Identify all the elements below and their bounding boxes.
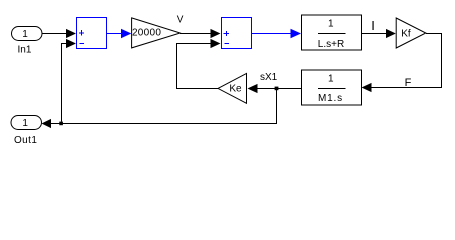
- wire TF1 to Kf: [362, 33, 388, 35]
- outport Out1: [11, 116, 42, 146]
- arrowhead into Sum1 +: [66, 29, 76, 38]
- svg-text:F: F: [405, 77, 412, 89]
- gain Ke: [218, 73, 247, 103]
- arrowhead into Sum1 -: [66, 39, 76, 48]
- sum S2: [222, 18, 252, 49]
- wire Gain to Sum2: [180, 33, 211, 35]
- gain 20000: [132, 18, 180, 48]
- inport In1: [12, 27, 43, 56]
- arrowhead into Sum2 -: [211, 39, 221, 48]
- wire Kf down to TF2 (F): [371, 34, 442, 88]
- wire Sum1 to Gain (blue): [107, 33, 123, 35]
- svg-text:sX1: sX1: [260, 72, 278, 83]
- arrowhead into Sum2 +: [211, 29, 221, 38]
- junction sX1 node: [275, 87, 279, 91]
- arrowhead into Out1: [42, 119, 52, 128]
- svg-text:Out1: Out1: [14, 135, 37, 146]
- junction bottom rail to Sum1 feedback: [59, 122, 63, 126]
- wire TF2 out to Ke (sX1): [257, 88, 302, 90]
- wire feedback up to Sum1 minus: [62, 44, 68, 122]
- wire In1 to Sum1: [42, 33, 67, 35]
- transfer fcn 1/M1.s: [302, 70, 362, 105]
- gain Kf: [396, 18, 426, 48]
- blue arrowhead into Gain: [121, 29, 131, 38]
- svg-text:1: 1: [328, 74, 334, 85]
- arrowhead into TF2 right side: [362, 83, 372, 92]
- svg-text:1: 1: [328, 19, 334, 30]
- svg-text:Kf: Kf: [401, 29, 411, 40]
- blue arrowhead into TF1: [291, 29, 302, 39]
- wire Ke out to Sum2 minus: [177, 44, 219, 89]
- svg-text:I: I: [371, 18, 375, 33]
- svg-text:1: 1: [22, 29, 28, 40]
- arrowhead into Ke: [248, 84, 258, 93]
- transfer fcn 1/(L.s+R): [302, 15, 362, 50]
- svg-text:20000: 20000: [132, 27, 161, 38]
- svg-text:Ke: Ke: [229, 83, 242, 94]
- wire sX1 down to bottom rail: [50, 89, 277, 124]
- arrowhead into Kf: [386, 29, 396, 38]
- svg-text:In1: In1: [18, 45, 32, 56]
- svg-text:L.s+R: L.s+R: [318, 39, 344, 50]
- wire Sum2 to TF1 (blue): [252, 33, 292, 35]
- svg-text:1: 1: [22, 118, 28, 129]
- sum S1: [77, 18, 107, 49]
- svg-text:V: V: [177, 15, 184, 26]
- svg-text:M1.s: M1.s: [318, 93, 343, 104]
